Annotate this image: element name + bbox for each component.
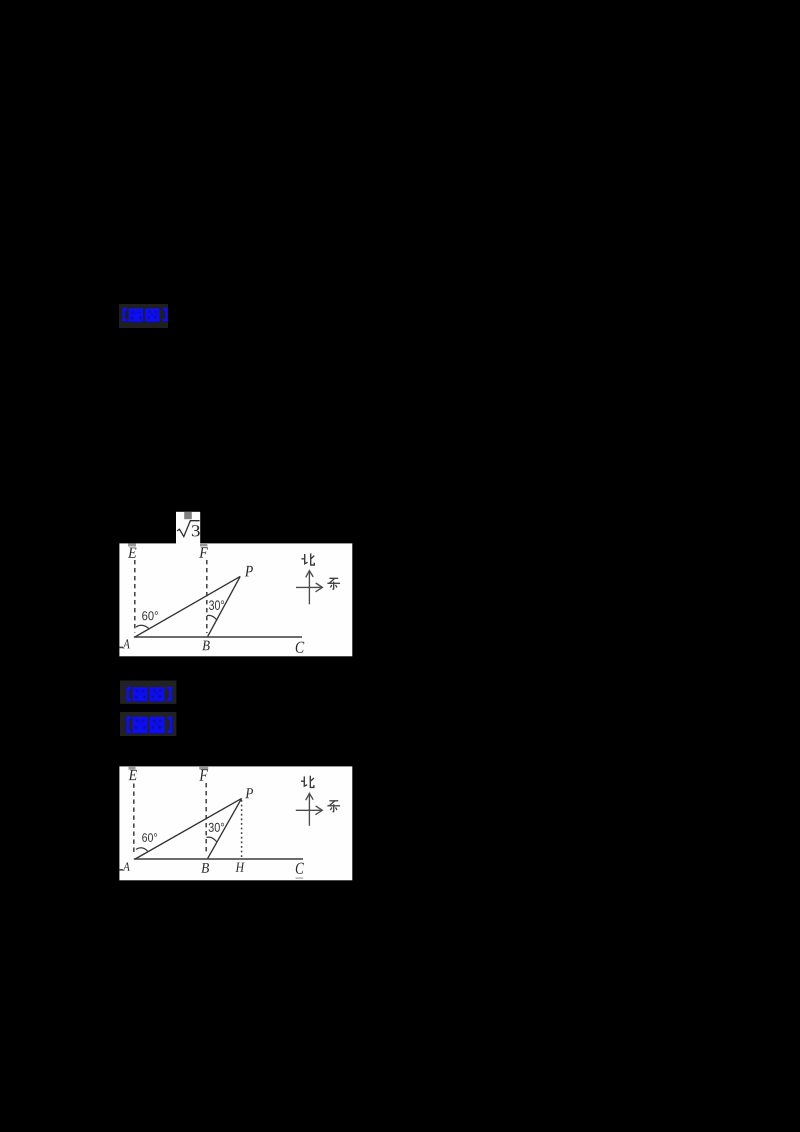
gray cut glyph above F (panel 2) bbox=[199, 767, 208, 770]
dotted altitude P-H (panel 2) bbox=[241, 800, 243, 859]
blue tag 1 text 【考点】 bbox=[123, 308, 168, 322]
gray underline below C (panel 2) bbox=[296, 877, 304, 878]
angle arc at A (panel 2) bbox=[136, 848, 148, 851]
label C (panel 2) bbox=[296, 863, 304, 874]
angle label 60 deg (panel 2) bbox=[142, 833, 157, 842]
label F (panel 2) bbox=[199, 769, 208, 780]
character Dong east (panel 2) bbox=[327, 801, 340, 812]
label C (panel 1) bbox=[296, 642, 305, 653]
compass arrows (panel 2) bbox=[296, 793, 323, 825]
label F (panel 1) bbox=[199, 547, 208, 557]
dashed line B-F (panel 2) bbox=[205, 783, 207, 854]
label E (panel 2) bbox=[129, 770, 137, 780]
radicand 3 bbox=[192, 525, 200, 536]
label P (panel 2) bbox=[245, 788, 253, 798]
dashed line B-F (panel 1) bbox=[206, 560, 208, 633]
tick left of A (panel 2) bbox=[120, 869, 123, 871]
baseline A-B-H-C (panel 2) bbox=[134, 858, 303, 860]
label A (panel 1) bbox=[123, 639, 130, 648]
gray cut glyph above E (panel 1) bbox=[128, 544, 136, 547]
dashed line A-E (panel 1) bbox=[134, 560, 136, 633]
dashed line A-E (panel 2) bbox=[133, 784, 135, 855]
angle arc at B (panel 2) bbox=[206, 837, 216, 841]
angle label 30 deg (panel 1) bbox=[209, 600, 224, 610]
blue tag 3 text 【解答】 bbox=[126, 716, 172, 733]
line A-P (panel 1) bbox=[135, 576, 240, 636]
label H (panel 2) bbox=[236, 863, 245, 872]
gray cut glyph above E (panel 2) bbox=[129, 767, 136, 770]
label B (panel 1) bbox=[202, 641, 209, 651]
line B-P (panel 2) bbox=[208, 798, 242, 858]
label P (panel 1) bbox=[245, 566, 253, 577]
label E (panel 1) bbox=[128, 548, 136, 558]
tick left of A (panel 1) bbox=[120, 647, 124, 649]
blue tag 2 text 【分析】 bbox=[126, 686, 172, 701]
panel 1 white background bbox=[119, 543, 352, 656]
angle arc at A (panel 1) bbox=[136, 625, 150, 629]
angle arc at B (panel 1) bbox=[207, 615, 217, 620]
blue tag 2 background box bbox=[120, 681, 176, 704]
label A (panel 2) bbox=[123, 863, 130, 871]
baseline A-B-C (panel 1) bbox=[134, 636, 302, 638]
label B (panel 2) bbox=[201, 863, 209, 873]
line B-P (panel 1) bbox=[208, 576, 241, 636]
blue tag 1 background box bbox=[119, 304, 168, 328]
character Bei north (panel 1) bbox=[301, 553, 314, 565]
character Dong east (panel 1) bbox=[327, 578, 340, 589]
panel 2 white background bbox=[119, 766, 352, 880]
blue tag 3 background box bbox=[120, 712, 176, 736]
gray cut glyph above F (panel 1) bbox=[200, 544, 207, 546]
gray handle square on sqrt box bbox=[184, 512, 192, 519]
line A-P (panel 2) bbox=[135, 798, 241, 859]
sqrt(3) white box bbox=[176, 512, 200, 544]
angle label 30 deg (panel 2) bbox=[209, 823, 224, 832]
radical sign bbox=[177, 521, 199, 537]
compass vertical north arrow (panel 1) bbox=[296, 571, 322, 605]
angle label 60 deg (panel 1) bbox=[142, 611, 158, 620]
character Bei north (panel 2) bbox=[301, 776, 314, 788]
